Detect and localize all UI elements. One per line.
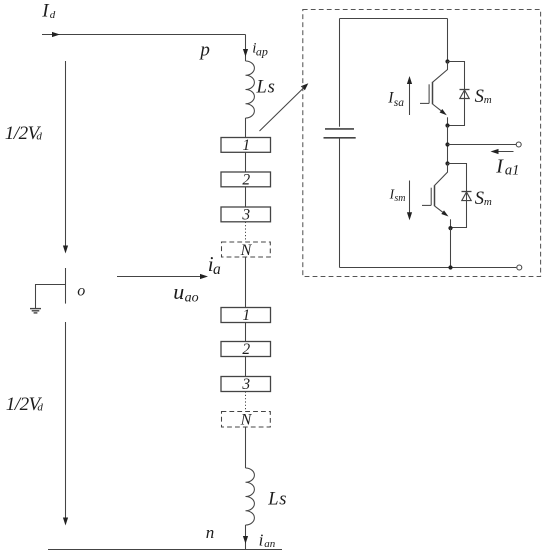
dotted continuation wire [245,222,247,242]
wire box N to lower inductor [245,427,247,468]
svg-text:o: o [77,283,85,300]
svg-text:2: 2 [242,171,250,188]
terminal dc- output [517,265,522,270]
inductor Ls (lower arm) [246,468,255,525]
svg-text:m: m [484,196,492,208]
svg-text:d: d [50,9,56,21]
submodule box 2 (upper arm) [221,172,271,187]
wire diode D2 branch [448,164,467,228]
junction dot midpoint [445,142,449,146]
svg-text:a1: a1 [505,163,520,179]
wire upper arm to lower arm [245,257,247,308]
junction dot T2 emitter [448,226,452,230]
svg-text:Ls: Ls [256,77,276,97]
svg-text:m: m [484,94,492,106]
wire midpoint to ac terminal [448,144,517,146]
current arrow Id on top rail [52,32,60,37]
submodule box 1 (lower arm) [221,308,271,323]
wire [245,187,247,207]
terminal ac output [516,142,521,147]
svg-text:3: 3 [241,376,250,393]
svg-text:ao: ao [185,291,199,306]
wire midpoint [447,126,449,164]
IGBT T2 (lower switch) [435,164,448,186]
svg-text:an: an [264,538,276,550]
wire capacitor top lead [339,19,341,127]
voltage arrow 1/2Vd upper [65,61,67,246]
svg-text:Ls: Ls [267,490,287,510]
submodule box N (upper arm, dashed) [222,242,271,257]
svg-text:sa: sa [394,97,404,109]
svg-text:p: p [198,40,210,61]
svg-text:d: d [36,131,42,143]
wire top rail to T1 collector node [447,19,449,62]
junction dot T1 collector [445,59,449,63]
current arrow ian [243,536,248,544]
svg-text:3: 3 [241,206,250,223]
svg-text:N: N [240,412,253,429]
submodule box 2 (lower arm) [221,342,271,357]
svg-text:u: u [173,279,184,304]
IGBT T1 (upper switch) [433,62,448,83]
wire inductor to bottom rail [245,525,247,550]
submodule detail dashed enclosure [303,10,541,277]
wire top dc rail [42,34,246,36]
capacitor [325,128,354,130]
junction dot T2 collector [445,161,449,165]
svg-text:S: S [475,189,484,209]
submodule box N (lower arm, dashed) [222,412,271,428]
submodule box 1 (upper arm) [221,138,271,153]
svg-text:n: n [206,523,215,542]
voltage arrow 1/2Vd lower [65,322,67,518]
wire T2 emitter to bottom rail [450,228,452,267]
svg-text:d: d [37,402,43,414]
submodule box 3 (lower arm) [221,377,271,392]
svg-text:I: I [495,156,504,178]
diode D1 (antiparallel, top) [460,89,470,91]
wire [245,323,247,342]
wire submodule top rail [340,18,448,20]
wire bottom dc rail [48,549,282,551]
current arrow Isa [409,84,411,115]
svg-text:2: 2 [242,341,250,358]
svg-text:ap: ap [256,44,268,58]
wire node o segment [65,268,67,304]
svg-text:a: a [213,261,221,278]
svg-text:N: N [240,242,253,259]
svg-text:S: S [475,87,484,107]
svg-text:1: 1 [242,307,250,324]
current arrow Ism [409,181,411,213]
junction dot T1 emitter [445,123,449,127]
inductor Ls (upper arm) [246,61,255,118]
svg-text:1: 1 [242,137,250,154]
wire from top rail down to upper arm inductor [245,35,247,62]
wire inductor to submodule 1 [245,118,247,138]
ground [30,308,41,310]
wire submodule bottom rail [340,267,517,269]
junction dot bottom rail [448,265,452,269]
diode D2 (antiparallel, bottom) [462,191,472,193]
wire [245,152,247,172]
submodule box 3 (upper arm) [221,207,271,222]
wire ground tap [36,285,66,309]
wire capacitor bottom lead [339,138,341,268]
current arrow Ia1 [494,151,514,153]
callout arrow from submodule 1 to detail box [260,87,306,132]
current arrow ia [117,276,201,278]
current arrow iap [243,49,248,57]
svg-text:i: i [259,530,264,549]
wire [245,357,247,377]
wire diode D1 branch [448,62,465,126]
svg-text:sm: sm [394,193,405,204]
dotted continuation wire [245,392,247,412]
